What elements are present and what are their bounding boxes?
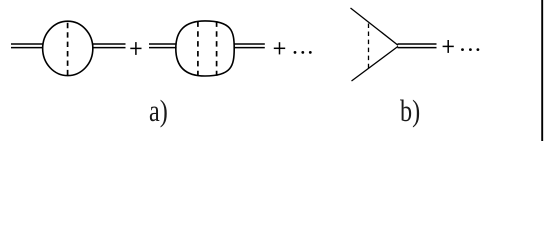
diagram a1: left double-line propagator [11, 44, 43, 48]
diagram b: lower external leg [352, 46, 399, 81]
cdots after b [461, 48, 479, 51]
diagram a2: internal dashed line 1 [197, 21, 199, 75]
diagram a2: internal dashed line 2 [216, 21, 218, 75]
diagram a2: left double-line propagator [149, 44, 177, 48]
diagram a1: internal dashed line [67, 23, 69, 76]
diagram b: internal dashed line [368, 24, 370, 69]
diagram a2: right double-line propagator [234, 44, 265, 48]
right border rule [541, 0, 543, 141]
diagram b: upper external leg [351, 8, 399, 45]
diagram a1: right double-line propagator [93, 44, 126, 48]
label a) [149, 93, 168, 129]
plus sign between a1 and a2 [130, 42, 141, 55]
plus sign after b [443, 40, 454, 53]
diagram b: double-line propagator [398, 44, 437, 48]
cdots after a2 [294, 51, 312, 54]
label b) [400, 93, 420, 129]
diagram a2: two-loop blob (rounded shape) [176, 21, 234, 76]
plus sign after a2 [274, 42, 285, 54]
diagram a1: one-loop bubble (ellipse) [43, 21, 93, 75]
